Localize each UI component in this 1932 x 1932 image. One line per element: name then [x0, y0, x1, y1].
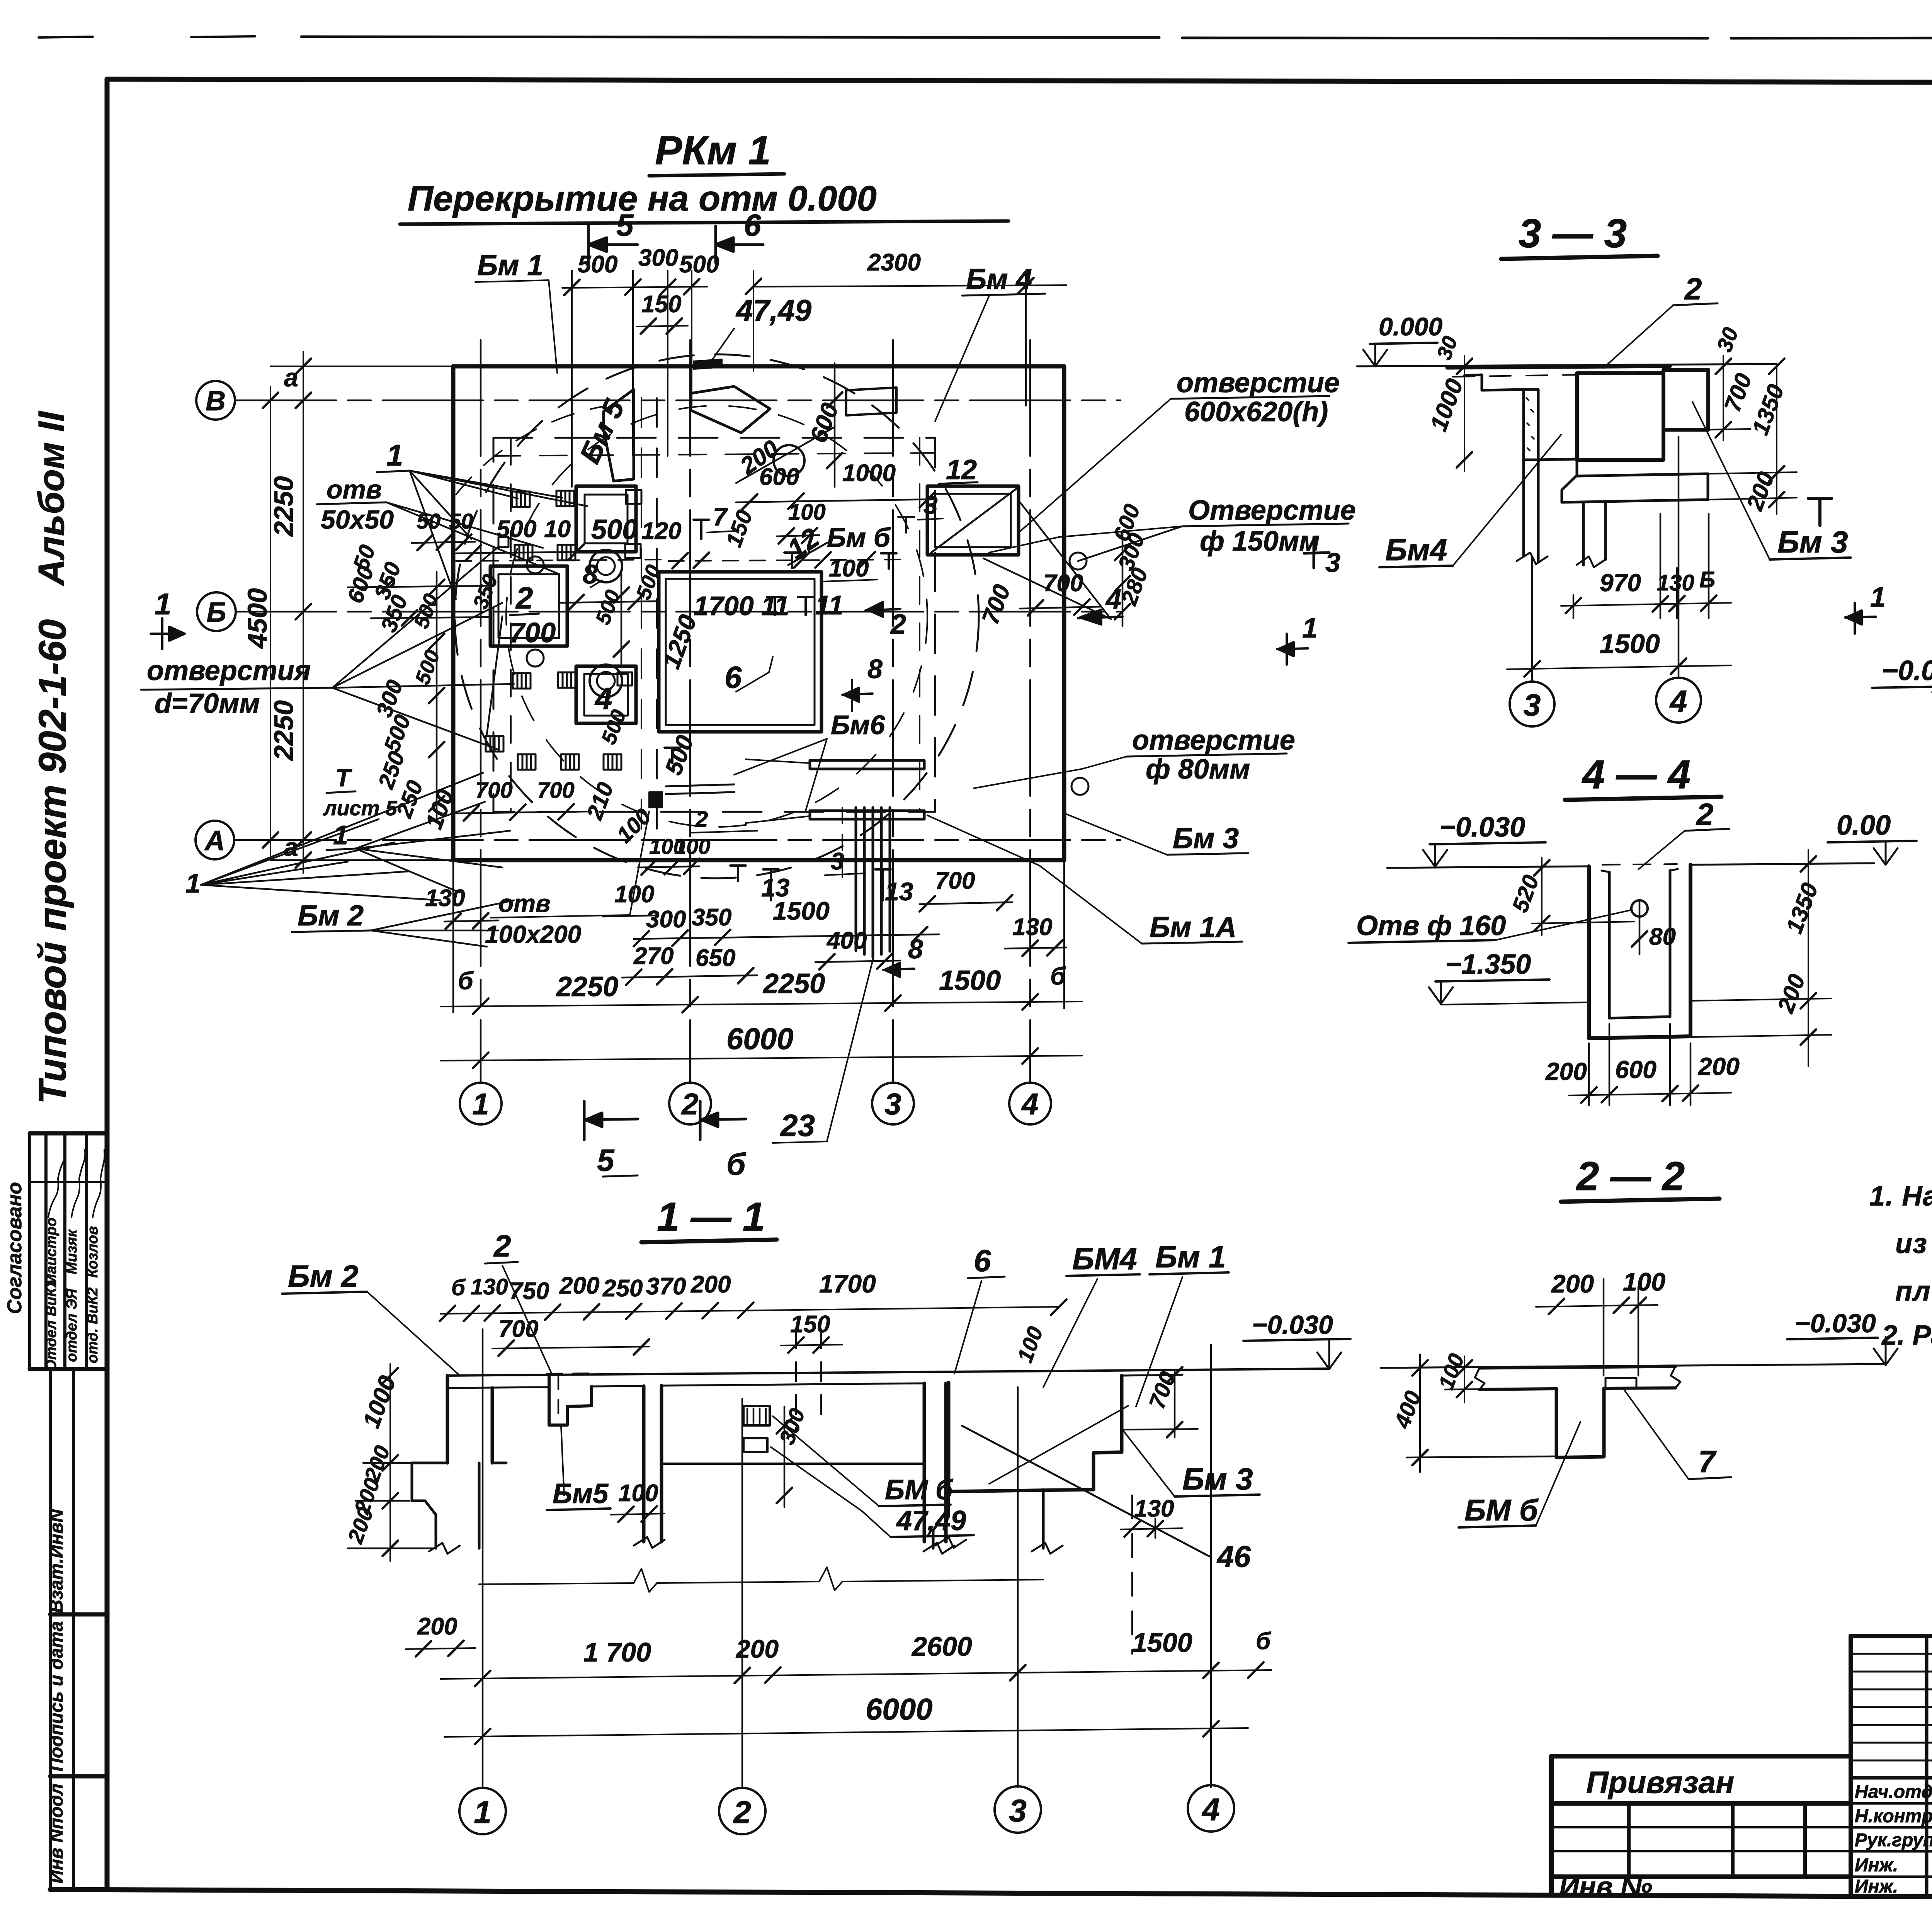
svg-text:Привязан: Привязан: [1586, 1765, 1734, 1799]
svg-text:б: б: [726, 1147, 747, 1181]
pривязан block: [1551, 1756, 1851, 1896]
svg-text:−0.030: −0.030: [1882, 655, 1932, 686]
extra fan leaders bottom-left 1: [201, 773, 483, 885]
svg-text:8: 8: [867, 654, 883, 684]
SECTION_33: [1357, 211, 1886, 726]
svg-text:Майстро: Майстро: [43, 1218, 60, 1286]
svg-text:100: 100: [788, 500, 826, 525]
svg-text:4 — 4: 4 — 4: [1582, 752, 1690, 797]
svg-text:5: 5: [616, 208, 634, 242]
svg-text:700: 700: [498, 1316, 538, 1342]
small dim pairs center dashed axis: [668, 560, 900, 561]
svg-text:100: 100: [618, 1480, 658, 1507]
svg-text:130: 130: [471, 1274, 508, 1299]
svg-text:300: 300: [646, 906, 686, 933]
section marker 6 top: [716, 226, 763, 263]
svg-text:200: 200: [1698, 1053, 1740, 1080]
stem: [1556, 1388, 1604, 1458]
small revision grid: [1927, 1636, 1932, 1897]
svg-text:б: б: [458, 967, 474, 995]
svg-text:Инж.: Инж.: [1855, 1876, 1898, 1897]
dim row 6000: [440, 1056, 1082, 1061]
svg-text:1: 1: [185, 868, 201, 898]
svg-text:50: 50: [449, 509, 473, 533]
U trench: [1589, 865, 1690, 1038]
svg-text:а: а: [284, 363, 298, 392]
svg-text:1. Набетонка по стене под: 1. Набетонка по стене подземной части вы…: [1869, 1181, 1932, 1212]
opening under big room: [666, 784, 734, 794]
svg-text:130: 130: [425, 885, 465, 912]
svg-text:БМ4: БМ4: [1072, 1242, 1137, 1276]
svg-text:Бм6: Бм6: [831, 710, 885, 740]
svg-text:23: 23: [780, 1108, 815, 1143]
svg-text:2250: 2250: [556, 971, 618, 1002]
extra horizontal tiny dim row under S1: [560, 601, 657, 603]
top vent shapes: [604, 389, 634, 481]
opening S3 with 4: [576, 666, 636, 723]
svg-text:Бм 3: Бм 3: [1182, 1462, 1253, 1496]
svg-text:ф 150мм: ф 150мм: [1200, 526, 1320, 557]
ground/slab line: [1357, 364, 1777, 366]
left wall: [447, 1376, 492, 1463]
right foundation: [933, 1492, 949, 1548]
svg-text:2: 2: [515, 581, 533, 615]
svg-text:200: 200: [417, 1613, 457, 1640]
svg-text:7: 7: [1698, 1444, 1717, 1479]
svg-text:5: 5: [597, 1143, 615, 1177]
TITLE_BLOCK: [1551, 1636, 1932, 1932]
axis circles bottom: [460, 1083, 502, 1124]
svg-text:отв: отв: [498, 889, 551, 917]
svg-text:лист 5: лист 5: [323, 797, 398, 820]
svg-text:Бм 1А: Бм 1А: [1150, 911, 1236, 943]
small plate on right of stem: [1605, 1378, 1636, 1388]
svg-text:−0.030: −0.030: [1439, 812, 1525, 843]
svg-text:Козлов: Козлов: [85, 1226, 101, 1278]
svg-text:б: б: [1256, 1628, 1271, 1655]
svg-text:Рук.груп: Рук.груп: [1855, 1830, 1932, 1850]
SECTION_11: [282, 1194, 1350, 1834]
svg-text:500: 500: [679, 251, 719, 278]
svg-text:3: 3: [884, 1087, 901, 1121]
svg-text:6: 6: [974, 1243, 991, 1278]
NOTES: [1869, 1181, 1932, 1351]
svg-text:400: 400: [826, 927, 867, 954]
svg-text:7: 7: [713, 502, 728, 531]
svg-text:2: 2: [493, 1229, 511, 1263]
svg-text:Б: Б: [1699, 567, 1715, 592]
title block main: [1851, 1636, 1932, 1898]
svg-text:Бм б: Бм б: [827, 522, 891, 553]
axis verticals to circles: [483, 1329, 1211, 1787]
svg-text:3 — 3: 3 — 3: [1519, 211, 1627, 256]
svg-text:50x50: 50x50: [321, 505, 394, 534]
svg-text:Перекрытие на отм 0.00: Перекрытие на отм 0.000: [408, 179, 877, 218]
grid line Б: [236, 611, 1121, 613]
svg-text:1: 1: [1302, 613, 1318, 644]
right dim col: [1122, 533, 1124, 626]
SECTION_1313: [1872, 599, 1932, 932]
svg-text:2250: 2250: [762, 968, 825, 999]
slab: [1381, 1364, 1886, 1368]
svg-text:Т: Т: [335, 764, 352, 792]
svg-text:3: 3: [1009, 1793, 1027, 1828]
svg-text:отв: отв: [327, 475, 382, 504]
svg-text:3: 3: [923, 491, 938, 519]
svg-text:А: А: [204, 825, 225, 856]
T3 mark right of plan: [1808, 498, 1832, 526]
opening S4 topright with 12: [927, 486, 1019, 555]
svg-text:2: 2: [695, 807, 708, 832]
svg-text:80: 80: [1649, 923, 1676, 950]
svg-text:100: 100: [614, 881, 654, 908]
axis circles: [459, 1788, 506, 1834]
inner dashed rectangle: [493, 438, 935, 812]
tiny T-section marks row: [694, 520, 709, 539]
droplines from plan corners to dim rows: [453, 862, 1064, 1012]
svg-text:Бм4: Бм4: [1385, 532, 1447, 567]
svg-text:Бм 4: Бм 4: [966, 263, 1032, 295]
svg-text:1 700: 1 700: [583, 1637, 651, 1667]
svg-text:13: 13: [885, 877, 913, 906]
pipes hatch below: [856, 808, 890, 957]
svg-text:1500: 1500: [1600, 629, 1660, 659]
svg-text:370: 370: [646, 1273, 686, 1300]
svg-text:d=70мм: d=70мм: [155, 688, 260, 719]
svg-text:2250: 2250: [269, 476, 299, 537]
svg-text:10: 10: [544, 516, 571, 543]
slab: [447, 1369, 1329, 1376]
svg-text:2. Расчётная нагрузка на п: 2. Расчётная нагрузка на перекрытие прин…: [1881, 1320, 1932, 1351]
dashed corridor verticals: [641, 398, 657, 842]
svg-text:600: 600: [759, 464, 799, 490]
БМ6 plates: [743, 1406, 770, 1425]
dashed axis through B inside plan: [456, 560, 668, 561]
svg-text:130: 130: [1657, 570, 1694, 595]
square opening S1 with 500: [576, 486, 636, 552]
svg-text:1000: 1000: [842, 460, 896, 486]
svg-text:БМ б: БМ б: [885, 1475, 954, 1505]
svg-text:В: В: [206, 386, 226, 417]
svg-text:Отв ф 160: Отв ф 160: [1356, 910, 1506, 941]
svg-text:Инж.: Инж.: [1855, 1855, 1898, 1876]
svg-text:4: 4: [1021, 1087, 1038, 1121]
svg-text:2: 2: [1684, 272, 1702, 306]
svg-text:3: 3: [1325, 548, 1340, 578]
svg-text:6000: 6000: [726, 1022, 794, 1056]
svg-text:Бм 2: Бм 2: [288, 1259, 359, 1293]
axis circles 3 4: [1532, 437, 1679, 680]
svg-text:плиты и балок перекрытия.: плиты и балок перекрытия.: [1895, 1276, 1932, 1307]
svg-text:6000: 6000: [866, 1692, 933, 1726]
dim row 2250 2250 1500: [440, 1002, 1082, 1007]
svg-text:120: 120: [641, 518, 681, 544]
svg-text:200: 200: [1551, 1269, 1594, 1298]
svg-text:350: 350: [692, 904, 731, 931]
grid line A: [236, 839, 1121, 841]
section marker 5 top: [588, 226, 638, 263]
svg-text:б: б: [451, 1275, 466, 1300]
svg-text:3: 3: [831, 848, 844, 875]
svg-text:270: 270: [633, 943, 673, 969]
slab lines: [1387, 863, 1874, 868]
svg-text:Б: Б: [207, 597, 226, 628]
svg-text:130: 130: [1134, 1495, 1174, 1522]
grid line B: [236, 400, 1121, 401]
svg-text:РКм 1: РКм 1: [655, 128, 771, 173]
svg-text:2: 2: [1696, 797, 1714, 832]
section mark 8: [842, 680, 872, 711]
svg-text:500: 500: [578, 251, 617, 278]
svg-text:Согласовано: Согласовано: [3, 1182, 26, 1314]
svg-text:ф 80мм: ф 80мм: [1146, 754, 1250, 785]
right big beam: [949, 1376, 1122, 1492]
svg-text:2: 2: [733, 1795, 751, 1830]
svg-text:750: 750: [509, 1278, 549, 1304]
svg-text:2600: 2600: [911, 1631, 972, 1662]
left wall of section: [1464, 375, 1524, 390]
svg-text:2: 2: [681, 1087, 698, 1121]
svg-text:47,49: 47,49: [735, 293, 812, 327]
signatures in stamp: [48, 1150, 105, 1217]
svg-text:−0.030: −0.030: [1795, 1309, 1876, 1338]
svg-text:46: 46: [1216, 1539, 1251, 1573]
svg-text:−1.350: −1.350: [1445, 949, 1531, 980]
SECTION_22: [1381, 1154, 1898, 1527]
opening S2 with 2/700: [490, 566, 567, 646]
svg-text:отверстие: отверстие: [1132, 725, 1295, 756]
svg-text:1: 1: [386, 438, 403, 472]
svg-text:8: 8: [908, 934, 923, 964]
svg-text:1: 1: [474, 1795, 492, 1830]
svg-text:3: 3: [1524, 688, 1541, 722]
svg-text:Бм5: Бм5: [553, 1478, 609, 1509]
svg-text:Отдел ВиК1: Отдел ВиК1: [43, 1279, 60, 1371]
small circle with 200/600: [774, 445, 804, 476]
svg-text:1700: 1700: [819, 1269, 876, 1298]
extra T marks: [665, 748, 680, 763]
svg-text:−0.030: −0.030: [1252, 1310, 1333, 1340]
svg-text:300: 300: [638, 245, 678, 271]
section mark 8 below: [883, 954, 914, 985]
svg-text:2250: 2250: [269, 700, 299, 761]
svg-text:Отверстие: Отверстие: [1188, 495, 1356, 526]
svg-text:700: 700: [537, 778, 575, 803]
svg-text:Бм 2: Бм 2: [298, 899, 364, 932]
svg-text:Нач.отд: Нач.отд: [1855, 1782, 1932, 1802]
outer plan rectangle: [453, 366, 1064, 860]
svg-text:Инв №: Инв №: [1559, 1872, 1652, 1903]
svg-text:200: 200: [690, 1271, 731, 1298]
svg-text:11: 11: [815, 590, 844, 620]
svg-text:600: 600: [1615, 1056, 1656, 1083]
section mark 4 right mid: [1078, 610, 1122, 624]
step below beam: [1562, 460, 1577, 502]
grid verticals 1-4: [481, 340, 1030, 1082]
svg-text:4: 4: [1201, 1792, 1220, 1827]
big room opening: [659, 572, 821, 732]
svg-text:200: 200: [559, 1272, 599, 1299]
svg-text:2 — 2: 2 — 2: [1576, 1154, 1685, 1199]
hole: [1631, 900, 1648, 917]
svg-text:отверстия: отверстия: [147, 655, 311, 686]
double circles: [590, 550, 622, 582]
svg-text:Бм 1: Бм 1: [477, 249, 543, 281]
svg-text:1: 1: [155, 587, 171, 621]
middle wall: [644, 1383, 946, 1542]
svg-text:из бетона М200 одновремённо: из бетона М200 одновремённо с бетонирова…: [1895, 1228, 1932, 1259]
svg-text:1500: 1500: [939, 965, 1001, 996]
svg-text:Бм 3: Бм 3: [1173, 822, 1239, 854]
svg-text:100x200: 100x200: [485, 920, 581, 948]
right beam Бм3: [1663, 370, 1708, 430]
svg-text:1500: 1500: [1132, 1628, 1192, 1658]
svg-text:1 — 1: 1 — 1: [657, 1194, 765, 1240]
diagonal leader 46: [962, 1426, 1209, 1556]
svg-text:4500: 4500: [242, 588, 272, 649]
section marker 1 left: [151, 618, 185, 649]
section markers bottom 5 6: [584, 1101, 638, 1140]
svg-text:130: 130: [1012, 914, 1052, 940]
big dashed circle: [455, 354, 979, 878]
hatched insert squares: [512, 492, 530, 507]
main beam: [1577, 373, 1663, 460]
leaders from label1 bottom-left: [201, 819, 440, 900]
section 1 arrow right: [1277, 634, 1308, 665]
extra leaders right label 2: [983, 502, 1111, 619]
svg-text:Подпись и дата: Подпись и дата: [46, 1621, 67, 1771]
section 1 mark far right: [1845, 603, 1876, 634]
svg-text:1: 1: [472, 1087, 489, 1121]
svg-text:700: 700: [475, 778, 513, 803]
svg-text:отдел ЭЯ: отдел ЭЯ: [64, 1288, 80, 1362]
svg-text:Типовой проект 902-1-60: Типовой проект 902-1-60: [31, 619, 74, 1104]
svg-text:Бм 1: Бм 1: [1155, 1240, 1226, 1274]
svg-text:Взam.ИнвN: Взam.ИнвN: [46, 1509, 67, 1613]
svg-text:1: 1: [1870, 582, 1886, 613]
small circle otv f150: [1070, 553, 1087, 570]
svg-text:12: 12: [946, 454, 977, 485]
section mark 2 right: [866, 602, 900, 617]
svg-text:700: 700: [509, 617, 556, 648]
svg-text:Альбом II: Альбом II: [31, 410, 72, 586]
svg-text:2300: 2300: [867, 249, 921, 276]
svg-text:Н.контр: Н.контр: [1855, 1806, 1932, 1827]
left stamp table upper: [30, 1133, 107, 1369]
svg-text:250: 250: [602, 1275, 643, 1302]
top sheet edge line: [39, 37, 93, 37]
svg-text:отверстие: отверстие: [1177, 367, 1340, 398]
svg-text:150: 150: [641, 291, 681, 318]
svg-text:0.000: 0.000: [1379, 312, 1442, 341]
svg-text:БМ б: БМ б: [1464, 1493, 1539, 1527]
svg-text:700: 700: [935, 867, 975, 894]
svg-text:200: 200: [1545, 1058, 1587, 1085]
left stamp table lower: [50, 1369, 107, 1889]
svg-text:100: 100: [674, 834, 710, 859]
svg-text:970: 970: [1600, 569, 1641, 597]
svg-text:6: 6: [744, 208, 761, 242]
svg-text:0.00: 0.00: [1837, 810, 1891, 841]
svg-text:700: 700: [1043, 570, 1083, 597]
svg-text:отд. ВиК2: отд. ВиК2: [85, 1287, 101, 1363]
lower room bars (Бм1А beams): [810, 760, 924, 769]
Бм5 pocket: [549, 1376, 592, 1425]
SECTION_44: [1349, 752, 1917, 1105]
svg-text:Бм 3: Бм 3: [1777, 525, 1848, 559]
svg-text:1500: 1500: [773, 896, 830, 925]
svg-text:500: 500: [497, 516, 536, 543]
svg-text:Инв Nподл: Инв Nподл: [46, 1784, 67, 1884]
svg-text:2: 2: [890, 609, 906, 640]
svg-text:500: 500: [591, 514, 638, 545]
svg-text:47,49: 47,49: [896, 1505, 966, 1536]
bottom break line: [479, 1580, 1043, 1584]
extra inner dashed lines: [510, 438, 512, 812]
top-left leaders from 1: [410, 471, 471, 599]
svg-text:650: 650: [696, 945, 735, 971]
svg-text:100: 100: [1623, 1267, 1665, 1296]
svg-text:600х620(h): 600х620(h): [1184, 396, 1328, 427]
svg-text:4: 4: [1669, 684, 1687, 718]
svg-text:Мизяк: Мизяк: [64, 1229, 80, 1274]
